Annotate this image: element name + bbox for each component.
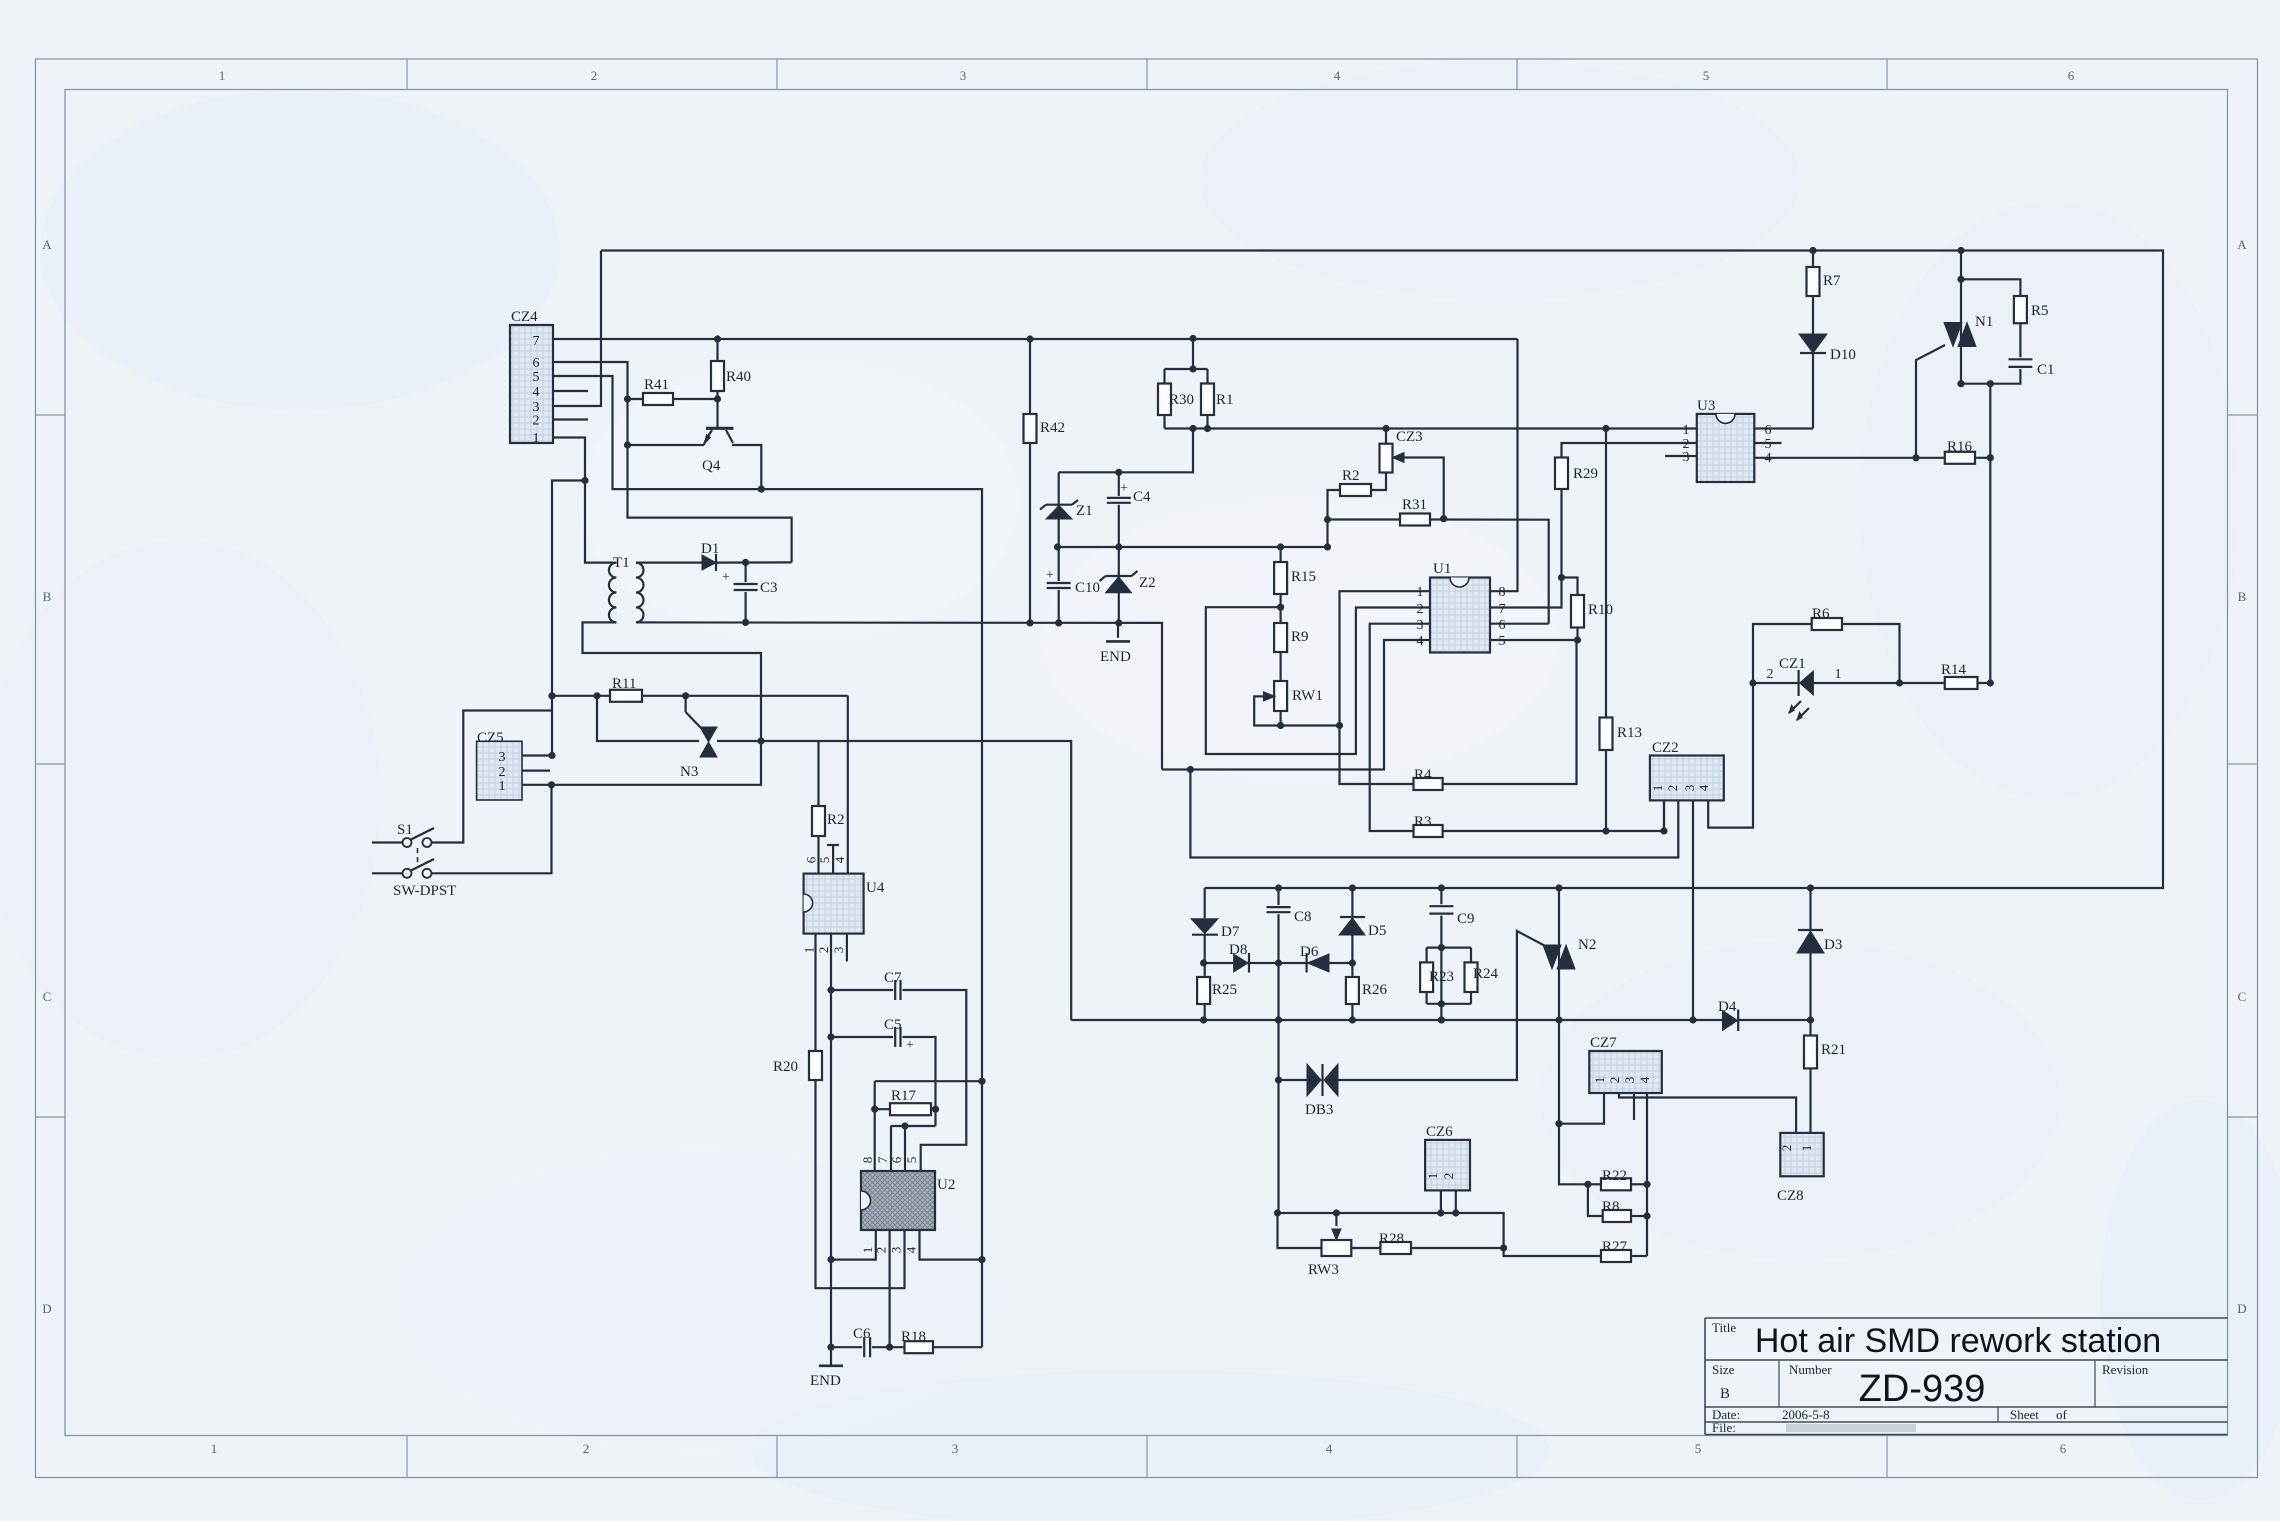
- junction: [548, 692, 555, 699]
- wire: [717, 741, 1071, 1020]
- resistor R27: [1601, 1250, 1631, 1262]
- junction: [1957, 247, 1964, 254]
- resistor R40: [711, 361, 724, 391]
- junction: [1555, 1016, 1562, 1023]
- wire: [1588, 1183, 1601, 1185]
- wire: [1204, 962, 1353, 964]
- wire: [1754, 427, 1813, 429]
- zener Z2: [1106, 577, 1132, 593]
- svg-text:7: 7: [875, 1156, 890, 1163]
- svg-text:1: 1: [1425, 1173, 1440, 1180]
- svg-text:R26: R26: [1362, 982, 1388, 998]
- svg-text:6: 6: [1765, 423, 1772, 438]
- svg-text:U4: U4: [866, 880, 885, 896]
- wire: [832, 845, 834, 874]
- resistor R10: [1571, 595, 1584, 628]
- junction: [978, 1078, 985, 1085]
- junction: [1807, 884, 1814, 891]
- wire: [1559, 888, 1588, 1184]
- resistor R8: [1603, 1210, 1631, 1222]
- wire: [1663, 800, 1665, 831]
- svg-text:R42: R42: [1040, 420, 1065, 436]
- svg-text:2: 2: [591, 68, 598, 83]
- svg-text:4: 4: [1326, 1441, 1333, 1456]
- resistor R41: [643, 393, 673, 405]
- junction: [757, 737, 764, 744]
- diode D1: [702, 555, 716, 570]
- svg-text:1: 1: [1799, 1145, 1814, 1152]
- svg-text:A: A: [42, 237, 52, 252]
- wire: [553, 376, 982, 1347]
- svg-text:6: 6: [1499, 618, 1506, 633]
- resistor R30: [1158, 384, 1171, 416]
- junction: [1602, 425, 1609, 432]
- wire: [1071, 1019, 1722, 1021]
- wire: [1425, 948, 1427, 963]
- svg-text:R7: R7: [1823, 273, 1841, 289]
- svg-text:R23: R23: [1429, 969, 1454, 985]
- svg-text:1: 1: [1835, 667, 1842, 682]
- capacitor C6: [862, 1335, 872, 1359]
- resistor R21: [1804, 1036, 1817, 1069]
- svg-text:END: END: [810, 1373, 841, 1389]
- resistor R17: [890, 1103, 931, 1115]
- svg-text:R20: R20: [773, 1059, 798, 1075]
- svg-text:RW3: RW3: [1308, 1262, 1339, 1278]
- svg-text:3: 3: [831, 947, 846, 954]
- wire: [875, 1080, 982, 1082]
- svg-text:Hot air SMD rework station: Hot air SMD rework station: [1755, 1322, 2161, 1360]
- wire: [1470, 992, 1472, 1004]
- svg-text:R41: R41: [644, 377, 669, 393]
- wire: [1470, 948, 1472, 963]
- svg-text:D1: D1: [701, 541, 719, 557]
- svg-text:R27: R27: [1602, 1239, 1628, 1255]
- svg-text:2: 2: [533, 414, 540, 429]
- svg-text:Q4: Q4: [702, 458, 721, 474]
- svg-text:R16: R16: [1947, 439, 1973, 455]
- svg-text:D8: D8: [1229, 942, 1247, 958]
- wire: [372, 872, 403, 874]
- svg-text:R25: R25: [1212, 982, 1237, 998]
- op-amp U4: [804, 874, 864, 934]
- svg-text:2: 2: [499, 765, 506, 780]
- wire: [372, 841, 403, 843]
- IC U1: [1430, 578, 1490, 653]
- wire: [601, 251, 2163, 889]
- wire: [1916, 345, 1945, 458]
- junction: [871, 1106, 878, 1113]
- svg-text:SW-DPST: SW-DPST: [393, 883, 456, 899]
- svg-text:7: 7: [1499, 602, 1506, 617]
- junction: [1555, 884, 1562, 891]
- wire: [1427, 946, 1471, 948]
- wire: [522, 769, 550, 771]
- junction: [1809, 247, 1816, 254]
- wire: [1059, 429, 1193, 473]
- junction: [593, 692, 600, 699]
- svg-text:R24: R24: [1473, 966, 1499, 982]
- junction: [1055, 619, 1062, 626]
- junction: [827, 986, 834, 993]
- junction: [1749, 679, 1756, 686]
- junction: [1438, 944, 1445, 951]
- capacitor C5: [893, 1025, 902, 1049]
- svg-text:N2: N2: [1578, 937, 1596, 953]
- svg-text:CZ5: CZ5: [477, 730, 504, 746]
- resistor R28: [1380, 1242, 1411, 1254]
- connector CZ7: [1589, 1051, 1662, 1093]
- resistor R23: [1420, 962, 1433, 992]
- diode D3: [1797, 931, 1824, 953]
- wire: [1411, 1247, 1504, 1249]
- svg-text:C5: C5: [884, 1017, 902, 1033]
- wire: [716, 339, 718, 428]
- zener Z1: [1046, 506, 1072, 520]
- svg-text:3: 3: [1683, 450, 1690, 465]
- wire: [636, 622, 1162, 769]
- svg-text:1: 1: [1683, 423, 1690, 438]
- resistor R24: [1465, 962, 1478, 992]
- wire: [716, 561, 792, 563]
- junction: [827, 1033, 834, 1040]
- wire: [1338, 931, 1551, 1080]
- capacitor C8: [1265, 905, 1293, 914]
- resistor R13: [1600, 718, 1613, 751]
- wire: [831, 1037, 936, 1126]
- svg-text:7: 7: [533, 334, 540, 349]
- connector CZ5: [477, 741, 522, 800]
- junction: [624, 395, 631, 402]
- svg-text:R4: R4: [1414, 767, 1432, 783]
- connector CZ4: [510, 325, 553, 443]
- svg-text:1: 1: [211, 1441, 218, 1456]
- wire: [1117, 623, 1119, 638]
- triac N3: [700, 727, 717, 742]
- wire: [1753, 682, 1799, 684]
- svg-text:Size: Size: [1712, 1362, 1735, 1377]
- svg-text:D3: D3: [1824, 937, 1842, 953]
- svg-text:R11: R11: [612, 676, 636, 692]
- junction: [978, 1256, 985, 1263]
- wire: [1960, 251, 1962, 384]
- junction: [1275, 1016, 1282, 1023]
- junction: [1187, 766, 1194, 773]
- trimmer CZ3: [1380, 444, 1393, 473]
- svg-text:R31: R31: [1402, 497, 1427, 513]
- wire: [1278, 1213, 1322, 1248]
- wire: [522, 741, 761, 785]
- wire: [1371, 429, 1386, 491]
- junction: [1438, 1000, 1445, 1007]
- svg-text:C4: C4: [1133, 489, 1151, 505]
- title block: [1705, 1317, 2228, 1319]
- wire: [1393, 458, 1444, 519]
- wire: [1562, 578, 1578, 596]
- junction: [1452, 1209, 1459, 1216]
- wire: [1328, 490, 1341, 547]
- diode D8: [1234, 954, 1248, 972]
- resistor R4: [1414, 778, 1443, 790]
- triac N2: [1543, 945, 1561, 969]
- diac DB3: [1307, 1064, 1321, 1096]
- svg-text:D4: D4: [1718, 999, 1737, 1015]
- resistor R20: [809, 1051, 822, 1080]
- svg-text:N3: N3: [680, 764, 698, 780]
- svg-text:2: 2: [1417, 602, 1424, 617]
- wire: [1206, 369, 1208, 429]
- resistor R14: [1945, 677, 1978, 689]
- wire: [1206, 607, 1430, 754]
- opto U3: [1697, 414, 1755, 482]
- capacitor C7: [893, 978, 902, 1002]
- svg-text:+: +: [906, 1038, 914, 1053]
- junction: [1643, 1181, 1650, 1188]
- wire: [816, 934, 905, 1289]
- svg-text:2: 2: [1779, 1145, 1794, 1152]
- wire: [1430, 520, 1549, 624]
- svg-text:END: END: [1100, 649, 1131, 665]
- wire: [1605, 429, 1607, 832]
- svg-text:3: 3: [1417, 618, 1424, 633]
- junction: [1324, 516, 1331, 523]
- svg-text:2: 2: [1441, 1173, 1456, 1180]
- switch S1 SW-DPST: [403, 838, 412, 847]
- svg-text:D: D: [42, 1301, 51, 1316]
- junction: [1912, 454, 1919, 461]
- wire: [1427, 1003, 1471, 1005]
- wire: [1204, 888, 1206, 918]
- svg-text:U3: U3: [1697, 398, 1715, 414]
- svg-text:ZD-939: ZD-939: [1859, 1368, 1986, 1410]
- svg-text:of: of: [2056, 1407, 2068, 1422]
- svg-text:R40: R40: [726, 369, 751, 385]
- svg-text:C7: C7: [884, 970, 902, 986]
- svg-text:2006-5-8: 2006-5-8: [1782, 1407, 1830, 1422]
- wire: [1646, 1093, 1648, 1256]
- resistor R31: [1400, 514, 1430, 526]
- wire: [1029, 339, 1031, 623]
- junction: [827, 1256, 834, 1263]
- wire: [1440, 1190, 1442, 1213]
- svg-text:Revision: Revision: [2102, 1362, 2149, 1377]
- wire: [1058, 546, 1328, 548]
- junction: [1689, 1016, 1696, 1023]
- svg-text:2: 2: [816, 947, 831, 954]
- svg-text:C8: C8: [1294, 909, 1312, 925]
- wire: [1631, 1215, 1647, 1217]
- wire: [817, 741, 819, 874]
- svg-text:R1: R1: [1216, 392, 1234, 408]
- svg-text:4: 4: [1334, 68, 1341, 83]
- svg-text:N1: N1: [1975, 314, 1993, 330]
- wire: [874, 1081, 876, 1171]
- junction: [1555, 1120, 1562, 1127]
- resistor R5: [2014, 296, 2027, 323]
- wire: [1204, 935, 1206, 1020]
- wire: [1254, 696, 1339, 725]
- wire: [1490, 339, 1518, 591]
- junction: [1349, 884, 1356, 891]
- svg-text:1: 1: [860, 1247, 875, 1254]
- svg-text:R18: R18: [901, 1329, 926, 1345]
- svg-text:3: 3: [1622, 1077, 1637, 1084]
- LED connector CZ1: [1800, 671, 1814, 695]
- wire: [1279, 1079, 1308, 1081]
- resistor R2 (upper): [1340, 484, 1371, 496]
- transistor Q4: [706, 427, 734, 430]
- svg-text:D6: D6: [1300, 944, 1319, 960]
- wire: [1335, 1213, 1337, 1226]
- svg-text:+: +: [1120, 481, 1128, 496]
- wire: [1351, 1247, 1380, 1249]
- svg-text:5: 5: [1695, 1441, 1702, 1456]
- svg-text:4: 4: [904, 1246, 919, 1253]
- svg-text:CZ3: CZ3: [1396, 429, 1423, 445]
- junction: [1274, 1209, 1281, 1216]
- junction: [1957, 276, 1964, 283]
- svg-text:B: B: [1720, 1386, 1730, 1402]
- wire: [890, 1126, 892, 1171]
- wire: [431, 711, 552, 843]
- wire: [1443, 640, 1577, 784]
- CZ3 wiper arrow: [1393, 453, 1405, 463]
- diode D7: [1191, 919, 1218, 934]
- svg-text:RW1: RW1: [1292, 688, 1323, 704]
- transformer T1: [609, 563, 616, 623]
- junction: [1987, 679, 1994, 686]
- svg-text:R3: R3: [1414, 814, 1432, 830]
- svg-text:+: +: [1046, 568, 1054, 583]
- wire: [1842, 624, 1900, 683]
- junction: [1500, 1244, 1507, 1251]
- svg-text:4: 4: [1637, 1076, 1652, 1083]
- capacitor C4: [1105, 496, 1133, 505]
- svg-text:5: 5: [1765, 437, 1772, 452]
- wire: [732, 445, 761, 489]
- svg-text:S1: S1: [397, 822, 413, 838]
- junction: [1333, 1209, 1340, 1216]
- wire: [552, 695, 848, 697]
- junction: [1026, 335, 1033, 342]
- resistor R2 (lower): [812, 806, 825, 836]
- wire: [1588, 1184, 1603, 1216]
- junction: [1896, 679, 1903, 686]
- potentiometer RW1: [1274, 681, 1287, 711]
- wire: [1192, 339, 1194, 370]
- wire: [904, 1126, 906, 1171]
- svg-text:CZ8: CZ8: [1777, 1188, 1804, 1204]
- resistor R25: [1197, 977, 1210, 1004]
- RW3 wiper arrow: [1332, 1229, 1341, 1240]
- junction: [1277, 722, 1284, 729]
- wire: [1163, 369, 1165, 429]
- svg-text:R2: R2: [1342, 468, 1360, 484]
- triac N1: [1944, 323, 1962, 347]
- wire: [888, 1230, 890, 1347]
- diode D10: [1799, 334, 1827, 353]
- junction: [1189, 365, 1196, 372]
- junction: [1440, 515, 1447, 522]
- wire: [431, 785, 552, 874]
- capacitor C3: [732, 582, 760, 592]
- wire: [1813, 682, 1944, 684]
- junction: [742, 619, 749, 626]
- svg-text:3: 3: [1682, 785, 1697, 792]
- wire: [1633, 1093, 1635, 1120]
- svg-text:1: 1: [1592, 1077, 1607, 1084]
- svg-text:5: 5: [1499, 634, 1506, 649]
- svg-text:3: 3: [499, 750, 506, 765]
- svg-text:C9: C9: [1457, 911, 1475, 927]
- wire: [1754, 457, 1945, 459]
- wire: [628, 398, 718, 400]
- svg-text:5: 5: [1703, 68, 1710, 83]
- diode D4: [1723, 1011, 1738, 1031]
- wire: [1809, 953, 1811, 1133]
- resistor R1: [1201, 384, 1214, 416]
- svg-text:2: 2: [1767, 667, 1774, 682]
- wire: [1631, 1183, 1647, 1185]
- svg-text:R5: R5: [2031, 303, 2049, 319]
- junction: [758, 486, 765, 493]
- resistor R16: [1945, 452, 1975, 464]
- junction: [1660, 827, 1667, 834]
- wire: [1162, 640, 1430, 770]
- junction: [932, 1106, 939, 1113]
- wire: [1961, 279, 2020, 383]
- svg-text:1: 1: [533, 431, 540, 446]
- wire: [1370, 624, 1430, 831]
- wire: [1279, 547, 1281, 726]
- svg-text:File:: File:: [1712, 1420, 1736, 1435]
- svg-text:1: 1: [1650, 785, 1665, 792]
- svg-text:R14: R14: [1941, 662, 1967, 678]
- ground END (near Z2): [1106, 640, 1130, 643]
- wire: [1708, 683, 1753, 828]
- svg-text:1: 1: [499, 779, 506, 794]
- svg-text:6: 6: [533, 356, 540, 371]
- junction: [1115, 469, 1122, 476]
- svg-text:D5: D5: [1368, 923, 1386, 939]
- junction: [1115, 543, 1122, 550]
- junction: [1574, 636, 1581, 643]
- junction: [1349, 1016, 1356, 1023]
- svg-text:1: 1: [801, 947, 816, 954]
- wire: [875, 1108, 936, 1110]
- svg-text:+: +: [722, 570, 730, 585]
- svg-text:1: 1: [1417, 585, 1424, 600]
- svg-text:Title: Title: [1712, 1320, 1736, 1335]
- wire: [1809, 888, 1811, 930]
- wire: [684, 696, 686, 712]
- wire: [628, 444, 705, 446]
- svg-text:U2: U2: [937, 1177, 955, 1193]
- svg-text:Z2: Z2: [1139, 575, 1156, 591]
- svg-text:Sheet: Sheet: [2010, 1407, 2039, 1422]
- junction: [714, 335, 721, 342]
- svg-text:U1: U1: [1433, 561, 1451, 577]
- wire: [1490, 639, 1578, 641]
- resistor R9: [1274, 623, 1287, 652]
- wire: [846, 934, 848, 962]
- junction: [1987, 454, 1994, 461]
- potentiometer RW3: [1322, 1240, 1352, 1256]
- junction: [548, 752, 555, 759]
- svg-text:DB3: DB3: [1305, 1102, 1333, 1118]
- resistor R7: [1807, 267, 1820, 296]
- junction: [1807, 1016, 1814, 1023]
